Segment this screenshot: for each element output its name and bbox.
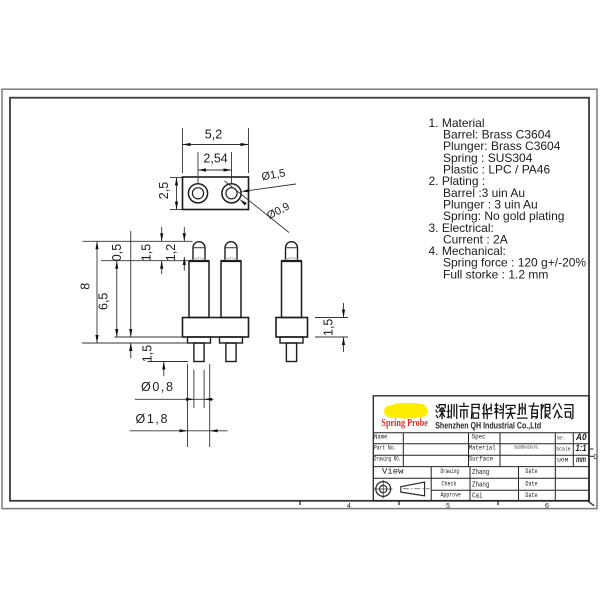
- svg-text:Check: Check: [442, 481, 457, 488]
- value A0: [575, 432, 586, 442]
- dim dia 1,8 line and arrows: [130, 429, 228, 432]
- top view housing body: [183, 177, 249, 210]
- logo text Spring Probe: [381, 418, 428, 429]
- dim 1,2 text: [164, 244, 178, 261]
- svg-text:Spring Probe: Spring Probe: [381, 418, 428, 429]
- side dim 1,5 text: [322, 319, 336, 336]
- svg-text:Scale: Scale: [556, 445, 571, 452]
- side view pin barrel top edge: [282, 260, 302, 262]
- svg-text:Cai: Cai: [472, 493, 483, 501]
- dim 2,54 line and arrows: [198, 168, 232, 171]
- front right pin tail pin: [226, 343, 236, 362]
- dim 2,5 line and arrows: [175, 178, 178, 210]
- dia 1,8 extension lines: [188, 364, 210, 447]
- svg-text:SUS/BRASS/LPC: SUS/BRASS/LPC: [514, 445, 538, 451]
- dim dia 0,8 line and arrows: [135, 398, 214, 401]
- dim 8 line and arrows: [95, 241, 98, 343]
- title block column lines lower: [431, 467, 555, 501]
- svg-text:Name: Name: [374, 433, 388, 440]
- top view left hole outer: [188, 184, 207, 203]
- svg-text:5: 5: [446, 503, 450, 510]
- company chinese name strokes: [436, 403, 573, 419]
- title block column lines upper: [403, 433, 573, 467]
- side view pin ledge: [280, 337, 303, 343]
- dim 2,54 text: [203, 152, 227, 166]
- side dim 1,5 line and arrows: [342, 303, 345, 352]
- zone number 4: [347, 503, 351, 510]
- dim dia 1,8 text: [136, 412, 170, 426]
- zone letter D: [593, 455, 598, 461]
- svg-text:Part No.: Part No.: [374, 444, 396, 451]
- value scale 1:1: [576, 443, 587, 453]
- table labels row1: [374, 433, 565, 441]
- svg-text:Spec: Spec: [472, 433, 486, 440]
- svg-text:D: D: [593, 455, 598, 461]
- svg-text:Material: Material: [469, 444, 496, 451]
- company english name: [435, 421, 541, 431]
- svg-text:mm: mm: [576, 454, 586, 464]
- svg-text:8: 8: [78, 283, 92, 290]
- zone number 6: [545, 503, 549, 510]
- side view pin plunger: [286, 242, 298, 261]
- svg-text:1,5: 1,5: [139, 244, 153, 261]
- side view pin barrel: [282, 261, 302, 318]
- dim 0,5 approach lines and arrows: [129, 231, 132, 358]
- side dim 1,5 extension lines: [315, 318, 348, 338]
- label dia 0,9: [265, 201, 292, 223]
- dim 1,5 top line and arrows: [160, 227, 163, 274]
- svg-text:1,5: 1,5: [322, 319, 336, 336]
- front left pin plunger: [193, 242, 205, 261]
- dim 6,5 line and arrows: [115, 261, 118, 337]
- front left pin ledge: [188, 337, 211, 343]
- svg-text:0,5: 0,5: [110, 244, 124, 261]
- side view insulator plate: [276, 318, 308, 338]
- front right pin barrel top edge: [221, 260, 241, 262]
- svg-text:Ver.: Ver.: [557, 434, 565, 441]
- svg-text:Drawing NO.: Drawing NO.: [374, 455, 401, 462]
- svg-text:A0: A0: [575, 432, 586, 442]
- dim 5,2 text: [205, 128, 222, 142]
- title block row lines: [373, 433, 589, 479]
- front right pin ledge: [220, 337, 243, 343]
- date labels: [525, 468, 538, 499]
- svg-text:UOM: UOM: [557, 456, 568, 463]
- dim 8 text: [78, 283, 92, 290]
- leader line dia 1,5: [241, 184, 296, 192]
- view cell label: [382, 466, 404, 476]
- zone tick x=300: [299, 501, 301, 505]
- svg-text:Date: Date: [525, 481, 538, 488]
- svg-text:6,5: 6,5: [97, 293, 111, 310]
- front left pin barrel top edge: [189, 260, 209, 262]
- svg-text:Shenzhen QH Industrial Co.,Ltd: Shenzhen QH Industrial Co.,Ltd: [435, 421, 541, 431]
- dim 5,2 extension lines: [183, 128, 249, 173]
- front left pin tail pin: [194, 343, 204, 362]
- svg-text:1:1: 1:1: [576, 443, 587, 453]
- top view right hole inner: [226, 188, 237, 199]
- ref line plate bottom ext: [115, 336, 183, 338]
- svg-text:Drawing: Drawing: [441, 468, 460, 475]
- side view pin tail pin: [286, 343, 296, 362]
- table labels row2: [374, 444, 571, 452]
- svg-text:Zhang: Zhang: [472, 481, 489, 489]
- front view insulator plate: [183, 318, 249, 338]
- title block outline: [373, 396, 589, 501]
- front left pin phantom pressed plunger line: [193, 258, 205, 260]
- outer border frame: [2, 89, 597, 508]
- zone tick x=399: [398, 501, 400, 505]
- value uom mm: [576, 454, 586, 464]
- zone tick right edge: [589, 449, 594, 456]
- svg-text:4: 4: [347, 503, 351, 510]
- dim 5,2 line and arrows: [183, 143, 249, 146]
- front right pin phantom pressed plunger line: [225, 258, 237, 260]
- front left pin barrel: [189, 261, 209, 318]
- value material spec tiny: [514, 445, 538, 451]
- top view right hole outer: [222, 184, 241, 203]
- projection symbol cone: [401, 482, 430, 496]
- svg-text:Full storke : 1.2 mm: Full storke : 1.2 mm: [443, 267, 548, 281]
- svg-text:Ø0,8: Ø0,8: [141, 380, 175, 394]
- logo yellow blob: [384, 403, 428, 419]
- dim 2,54 extension lines: [198, 152, 232, 184]
- svg-text:2,5: 2,5: [157, 182, 171, 199]
- dim 1,5 bottom left arrows: [129, 343, 165, 376]
- dim 6,5 text: [97, 293, 111, 310]
- ref line tail bottom ext: [148, 361, 189, 363]
- projection symbol circle: [374, 480, 393, 499]
- zone number 5: [446, 503, 450, 510]
- notes text block: [429, 116, 587, 281]
- ref line ledge bottom ext: [82, 342, 188, 344]
- inner border frame: [10, 98, 589, 501]
- svg-text:1,5: 1,5: [141, 345, 155, 362]
- dia 0,8 extension lines: [194, 370, 204, 409]
- svg-text:6: 6: [545, 503, 549, 510]
- front right pin barrel: [221, 261, 241, 318]
- signature names: [472, 469, 489, 501]
- svg-text:1,2: 1,2: [164, 244, 178, 261]
- table labels row3: [374, 455, 568, 463]
- front right pin plunger: [225, 242, 237, 261]
- dim 2,5 text: [157, 182, 171, 199]
- title block check/approve row line: [431, 489, 589, 491]
- svg-text:Surface: Surface: [469, 455, 493, 462]
- svg-text:Date: Date: [525, 492, 538, 499]
- svg-text:Zhang: Zhang: [472, 469, 489, 477]
- corner trim diagonal: [587, 500, 595, 506]
- svg-text:View: View: [382, 466, 404, 476]
- dim 1,5 top text: [139, 244, 153, 261]
- svg-text:2,54: 2,54: [203, 152, 227, 166]
- label dia 1,5: [261, 167, 287, 183]
- svg-text:Ø1,8: Ø1,8: [136, 412, 170, 426]
- dim 0,5 text: [110, 244, 124, 261]
- dim 1,2 line and arrows: [183, 227, 186, 271]
- svg-text:Approve: Approve: [441, 492, 462, 499]
- dim 2,5 extension lines: [170, 178, 182, 210]
- dim dia 0,8 text: [141, 380, 175, 394]
- svg-text:Date: Date: [525, 468, 538, 475]
- leader line dia 0,9: [225, 181, 290, 233]
- ref line tip level y=241: [83, 240, 193, 242]
- ref line barrel top y=260.5: [101, 260, 190, 262]
- dim 1,5 bottom left text: [141, 345, 155, 362]
- svg-text:5,2: 5,2: [205, 128, 222, 142]
- top view left hole inner: [192, 188, 203, 199]
- signature rows labels: [441, 468, 462, 498]
- side view pin phantom pressed plunger line: [286, 258, 298, 260]
- zone tick x=498: [497, 501, 499, 505]
